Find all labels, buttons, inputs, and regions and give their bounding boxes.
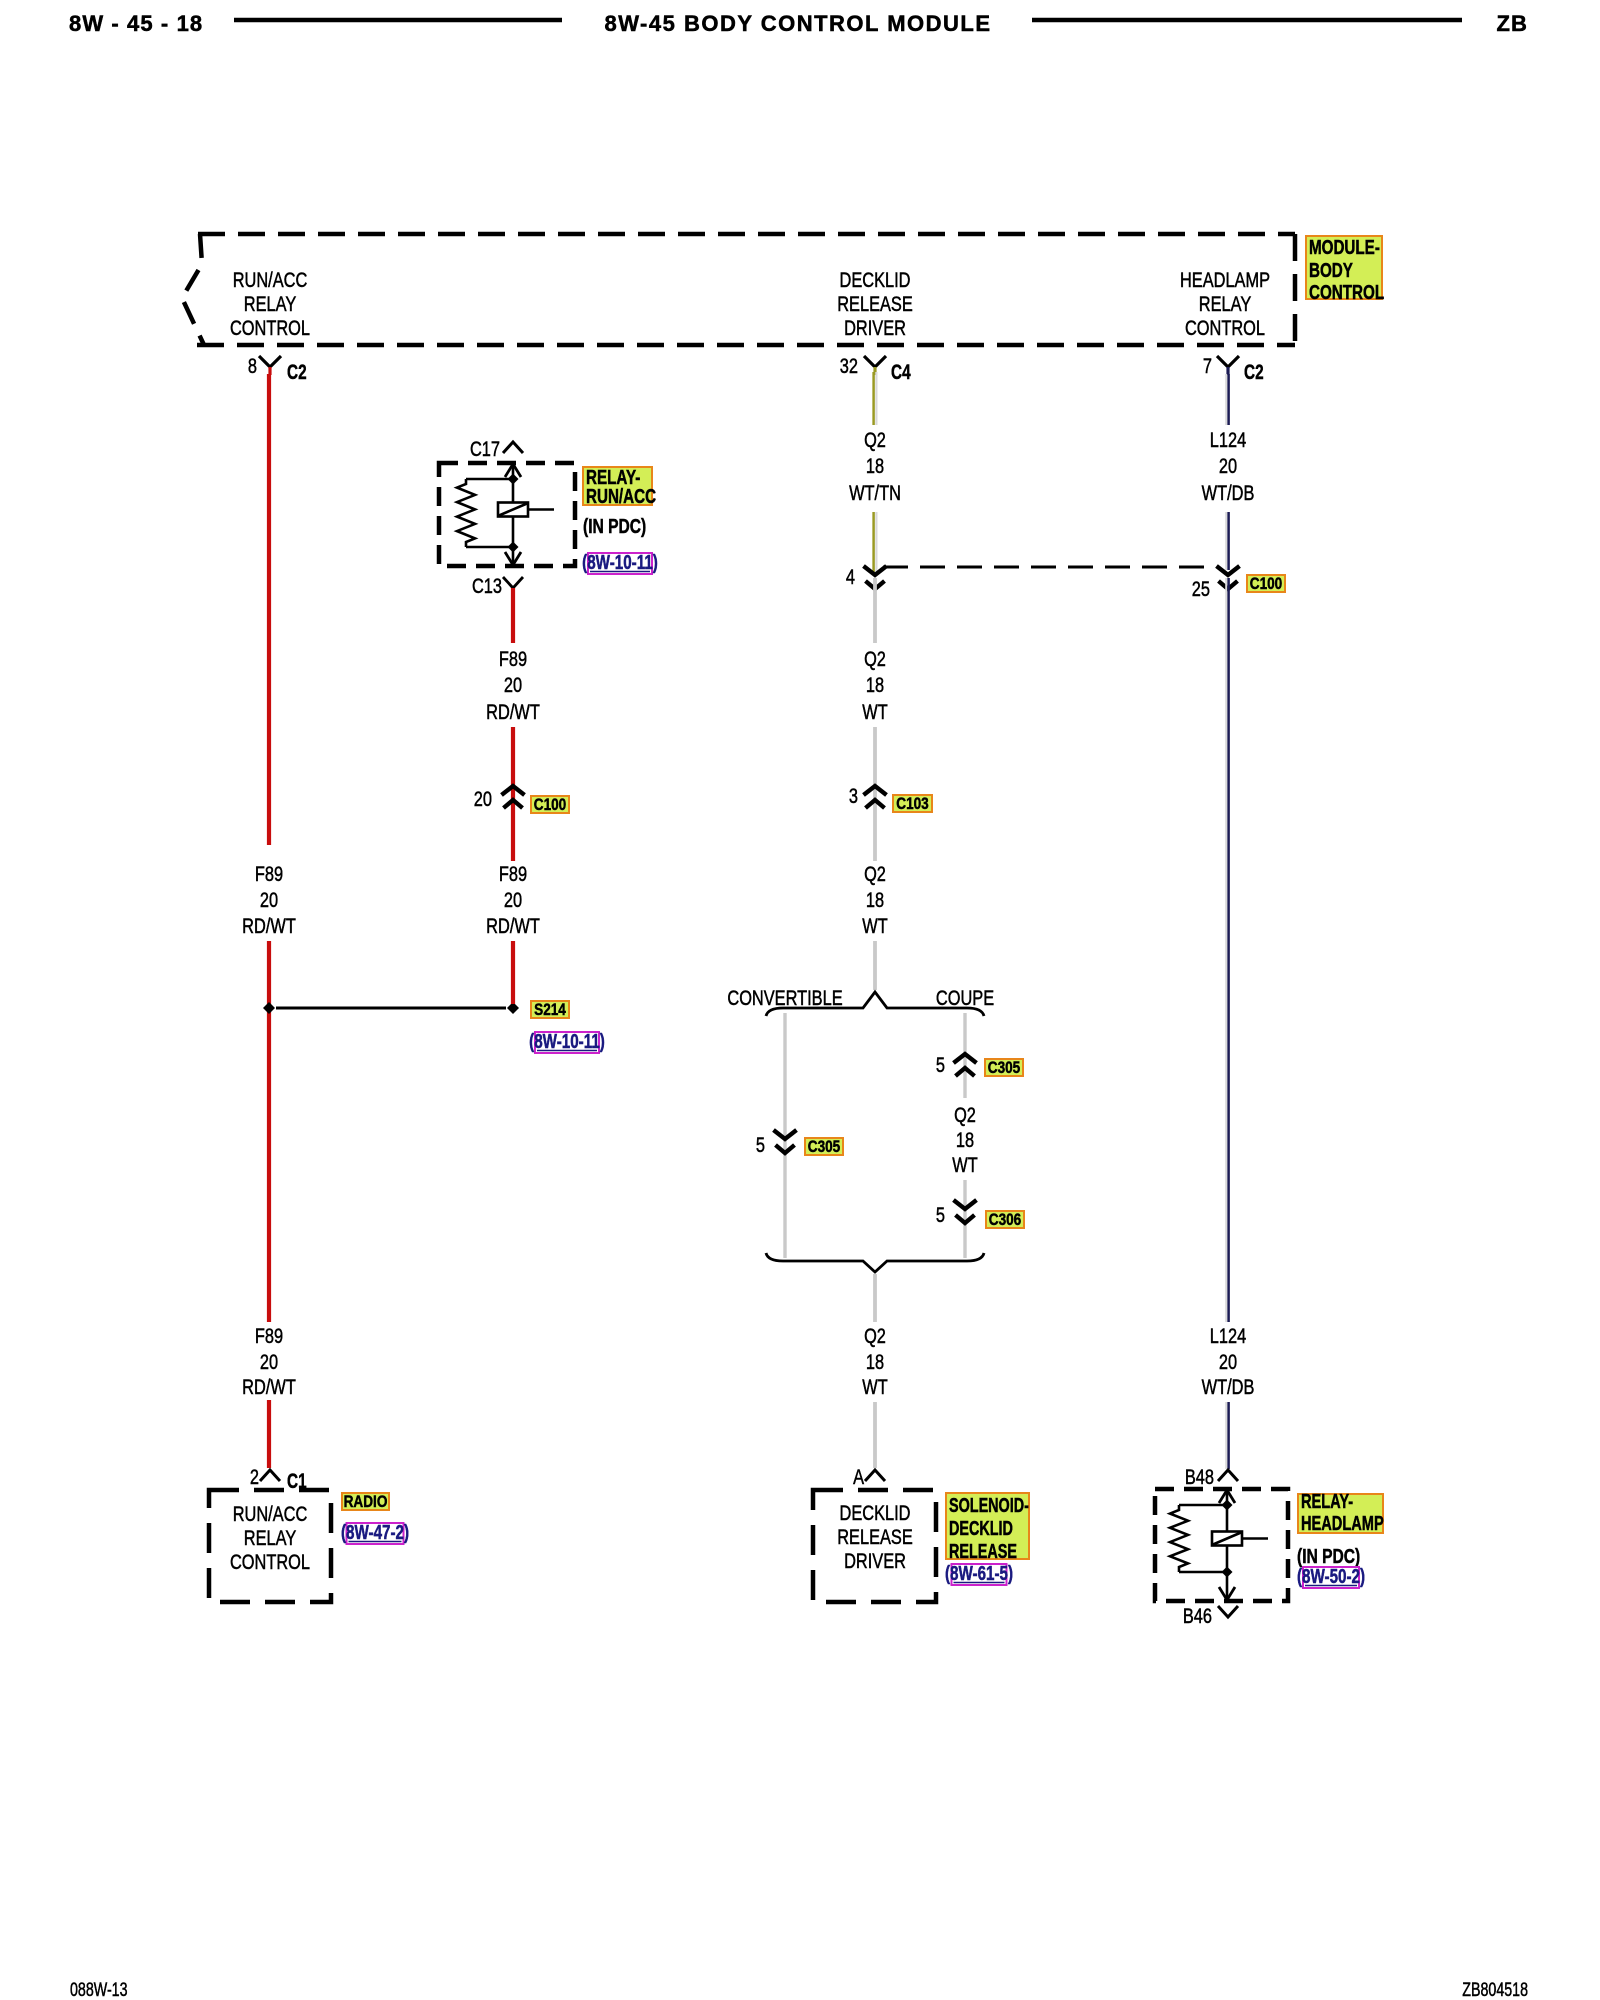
svg-text:C305: C305 <box>808 1138 841 1157</box>
svg-text:(IN PDC): (IN PDC) <box>583 515 646 537</box>
svg-text:(8W-47-2): (8W-47-2) <box>341 1521 409 1544</box>
svg-text:18: 18 <box>866 888 884 911</box>
svg-text:C305: C305 <box>988 1059 1021 1078</box>
svg-text:4: 4 <box>846 565 855 588</box>
svg-text:CONTROL: CONTROL <box>230 316 310 339</box>
svg-text:WT: WT <box>862 914 888 937</box>
svg-text:20: 20 <box>1219 1350 1237 1373</box>
svg-text:RELAY: RELAY <box>244 292 297 315</box>
svg-text:ZB: ZB <box>1496 11 1528 36</box>
svg-text:32: 32 <box>840 354 858 377</box>
svg-text:C4: C4 <box>891 360 911 384</box>
svg-text:Q2: Q2 <box>864 862 886 885</box>
svg-text:COUPE: COUPE <box>936 986 994 1009</box>
svg-text:RD/WT: RD/WT <box>486 914 540 937</box>
svg-text:RELEASE: RELEASE <box>837 1525 913 1548</box>
svg-text:DECKLID: DECKLID <box>840 268 911 291</box>
svg-text:RELAY: RELAY <box>244 1526 297 1549</box>
svg-text:RUN/ACC: RUN/ACC <box>233 1502 308 1525</box>
svg-text:Q2: Q2 <box>864 1324 886 1347</box>
svg-text:L124: L124 <box>1210 1324 1246 1347</box>
svg-text:WT: WT <box>862 1375 888 1398</box>
svg-text:S214: S214 <box>534 1001 566 1020</box>
svg-text:CONVERTIBLE: CONVERTIBLE <box>727 986 842 1009</box>
svg-text:DECKLID: DECKLID <box>949 1517 1013 1540</box>
svg-text:WT/TN: WT/TN <box>849 481 901 504</box>
svg-text:RUN/ACC: RUN/ACC <box>586 485 656 508</box>
svg-text:L124: L124 <box>1210 428 1246 451</box>
svg-text:RADIO: RADIO <box>344 1493 388 1512</box>
svg-text:RD/WT: RD/WT <box>486 700 540 723</box>
svg-text:RUN/ACC: RUN/ACC <box>233 268 308 291</box>
svg-text:18: 18 <box>866 1350 884 1373</box>
svg-text:BODY: BODY <box>1309 259 1353 282</box>
svg-text:C2: C2 <box>287 360 307 384</box>
svg-text:20: 20 <box>1219 454 1237 477</box>
svg-text:C17: C17 <box>470 437 500 460</box>
svg-text:5: 5 <box>936 1053 945 1076</box>
svg-text:3: 3 <box>849 784 858 807</box>
svg-text:CONTROL: CONTROL <box>1185 316 1265 339</box>
svg-text:C306: C306 <box>989 1211 1021 1230</box>
svg-text:20: 20 <box>474 787 492 810</box>
svg-text:20: 20 <box>504 888 522 911</box>
svg-text:HEADLAMP: HEADLAMP <box>1301 1512 1384 1535</box>
svg-text:20: 20 <box>504 673 522 696</box>
svg-text:18: 18 <box>866 673 884 696</box>
svg-text:Q2: Q2 <box>954 1103 976 1126</box>
svg-text:RD/WT: RD/WT <box>242 1375 296 1398</box>
svg-text:WT/DB: WT/DB <box>1202 1375 1255 1398</box>
svg-text:5: 5 <box>756 1133 765 1156</box>
svg-text:ZB804518: ZB804518 <box>1462 1979 1528 2000</box>
svg-text:Q2: Q2 <box>864 647 886 670</box>
svg-text:8W - 45 - 18: 8W - 45 - 18 <box>69 11 203 36</box>
svg-text:(8W-50-2): (8W-50-2) <box>1297 1565 1365 1588</box>
svg-text:(8W-10-11): (8W-10-11) <box>529 1030 605 1053</box>
svg-text:18: 18 <box>956 1128 974 1151</box>
svg-text:RELAY: RELAY <box>1199 292 1252 315</box>
svg-text:20: 20 <box>260 888 278 911</box>
svg-text:Q2: Q2 <box>864 428 886 451</box>
svg-text:7: 7 <box>1203 354 1212 377</box>
svg-text:C100: C100 <box>1250 575 1282 594</box>
svg-text:8: 8 <box>248 354 257 377</box>
svg-text:DECKLID: DECKLID <box>840 1501 911 1524</box>
svg-text:F89: F89 <box>499 862 527 885</box>
svg-text:WT/DB: WT/DB <box>1202 481 1255 504</box>
svg-text:B48: B48 <box>1185 1465 1214 1488</box>
svg-text:25: 25 <box>1192 577 1210 600</box>
svg-text:HEADLAMP: HEADLAMP <box>1180 268 1270 291</box>
svg-text:RD/WT: RD/WT <box>242 914 296 937</box>
svg-text:CONTROL: CONTROL <box>230 1550 310 1573</box>
svg-text:F89: F89 <box>255 1324 283 1347</box>
svg-text:RELEASE: RELEASE <box>837 292 913 315</box>
svg-text:2: 2 <box>250 1465 259 1488</box>
svg-text:DRIVER: DRIVER <box>844 316 906 339</box>
svg-text:RELEASE: RELEASE <box>949 1540 1017 1563</box>
svg-text:5: 5 <box>936 1203 945 1226</box>
svg-text:A: A <box>853 1465 864 1488</box>
svg-text:WT: WT <box>952 1153 978 1176</box>
svg-text:C100: C100 <box>534 796 566 815</box>
svg-text:C103: C103 <box>896 795 928 814</box>
svg-text:B46: B46 <box>1183 1604 1212 1627</box>
svg-text:DRIVER: DRIVER <box>844 1549 906 1572</box>
svg-text:20: 20 <box>260 1350 278 1373</box>
svg-text:8W-45 BODY CONTROL MODULE: 8W-45 BODY CONTROL MODULE <box>604 11 991 36</box>
svg-text:C13: C13 <box>472 574 502 597</box>
svg-text:WT: WT <box>862 700 888 723</box>
svg-text:(8W-61-5): (8W-61-5) <box>945 1562 1013 1585</box>
svg-text:F89: F89 <box>255 862 283 885</box>
svg-text:(8W-10-11): (8W-10-11) <box>582 551 658 574</box>
svg-text:088W-13: 088W-13 <box>70 1979 128 2000</box>
svg-text:F89: F89 <box>499 647 527 670</box>
svg-text:SOLENOID-: SOLENOID- <box>949 1494 1029 1517</box>
svg-text:C2: C2 <box>1244 360 1264 384</box>
svg-text:CONTROL: CONTROL <box>1309 281 1384 304</box>
svg-text:RELAY-: RELAY- <box>1301 1490 1353 1513</box>
svg-text:MODULE-: MODULE- <box>1309 236 1380 259</box>
svg-text:18: 18 <box>866 454 884 477</box>
